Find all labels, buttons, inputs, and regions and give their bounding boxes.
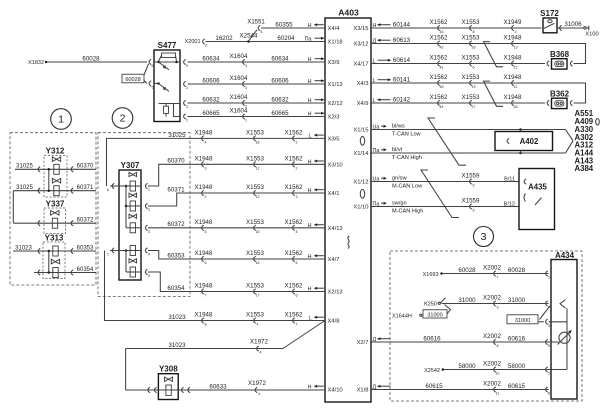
svg-text:4: 4 [148, 253, 150, 257]
svg-text:A402: A402 [520, 137, 539, 146]
svg-text:X1/12: X1/12 [353, 180, 368, 186]
svg-text:X1/10: X1/10 [353, 205, 368, 211]
svg-text:7: 7 [497, 276, 499, 280]
svg-text:12: 12 [514, 66, 518, 70]
svg-text:X1948: X1948 [504, 35, 522, 42]
svg-text:60633: 60633 [209, 383, 227, 390]
svg-text:16202: 16202 [215, 35, 233, 42]
svg-text:2: 2 [296, 166, 298, 170]
svg-text:X4/7: X4/7 [328, 257, 340, 263]
svg-text:X1562: X1562 [285, 219, 303, 226]
svg-text:X4/10: X4/10 [328, 388, 343, 394]
svg-text:60614: 60614 [393, 57, 411, 64]
svg-text:42: 42 [440, 46, 444, 50]
svg-text:9: 9 [497, 306, 499, 310]
svg-text:58000: 58000 [458, 363, 476, 370]
svg-text:17: 17 [472, 105, 476, 109]
svg-text:4: 4 [296, 230, 298, 234]
svg-text:X4/9: X4/9 [357, 101, 369, 107]
svg-text:X1559: X1559 [462, 198, 480, 205]
svg-text:sw/gn: sw/gn [392, 200, 407, 206]
svg-text:9: 9 [186, 64, 188, 68]
svg-text:6: 6 [473, 66, 475, 70]
svg-text:X2002: X2002 [483, 381, 501, 388]
svg-text:60615: 60615 [508, 383, 526, 390]
svg-text:X1948: X1948 [504, 94, 522, 101]
svg-text:19: 19 [472, 85, 476, 89]
svg-text:Y313: Y313 [45, 233, 64, 242]
svg-text:6: 6 [107, 188, 109, 192]
svg-text:5: 5 [473, 184, 475, 188]
svg-text:X2/3: X2/3 [328, 115, 340, 121]
svg-text:3: 3 [205, 166, 207, 170]
svg-text:3: 3 [148, 230, 150, 234]
svg-text:X1562: X1562 [285, 283, 303, 290]
svg-text:X2002: X2002 [483, 265, 501, 272]
svg-text:X1553: X1553 [462, 74, 480, 81]
svg-text:43: 43 [440, 30, 444, 34]
svg-text:X2002: X2002 [483, 361, 501, 368]
svg-text:2: 2 [205, 195, 207, 199]
svg-text:60353: 60353 [167, 252, 185, 259]
svg-text:bl/ws: bl/ws [392, 123, 405, 129]
svg-text:16: 16 [256, 261, 260, 265]
svg-text:60632: 60632 [202, 96, 220, 103]
svg-text:X2542: X2542 [424, 368, 440, 374]
svg-text:16: 16 [514, 105, 518, 109]
svg-text:X1553: X1553 [462, 35, 480, 42]
svg-text:X1948: X1948 [195, 283, 213, 290]
svg-text:4: 4 [258, 392, 260, 396]
svg-text:X2/7: X2/7 [357, 340, 369, 346]
svg-text:X2/13: X2/13 [328, 290, 343, 296]
svg-text:Y312: Y312 [46, 146, 65, 155]
svg-text:X1948: X1948 [504, 74, 522, 81]
svg-text:Y337: Y337 [46, 199, 65, 208]
svg-text:X1551: X1551 [247, 19, 265, 25]
svg-text:31025: 31025 [16, 164, 33, 170]
svg-text:X3/9: X3/9 [328, 60, 340, 66]
svg-text:60141: 60141 [393, 76, 411, 83]
svg-text:X3/12: X3/12 [353, 42, 368, 48]
svg-text:X1559: X1559 [462, 173, 480, 180]
svg-text:5: 5 [148, 274, 150, 278]
svg-text:X2001: X2001 [185, 39, 201, 45]
svg-text:1: 1 [148, 188, 150, 192]
svg-text:60142: 60142 [393, 96, 411, 103]
svg-text:31025: 31025 [16, 185, 33, 191]
svg-text:X1562: X1562 [430, 19, 448, 26]
svg-text:5: 5 [205, 230, 207, 234]
svg-text:31023: 31023 [168, 342, 186, 349]
svg-text:2: 2 [148, 208, 150, 212]
svg-text:5: 5 [152, 86, 154, 90]
svg-text:4: 4 [245, 64, 247, 68]
svg-text:31023: 31023 [15, 245, 32, 251]
svg-text:3: 3 [515, 30, 517, 34]
svg-text:X1693: X1693 [423, 272, 439, 278]
svg-text:X1/15: X1/15 [353, 128, 368, 134]
svg-text:X1562: X1562 [430, 35, 448, 42]
svg-text:X2/12: X2/12 [328, 101, 343, 107]
svg-text:X1/14: X1/14 [353, 151, 369, 157]
svg-text:44: 44 [440, 105, 444, 109]
svg-text:X1832: X1832 [28, 60, 44, 66]
svg-text:31006: 31006 [564, 21, 582, 28]
svg-text:12: 12 [256, 195, 260, 199]
svg-text:X1604: X1604 [230, 53, 248, 60]
svg-text:7: 7 [296, 323, 298, 327]
svg-text:S477: S477 [158, 41, 177, 50]
svg-text:31000: 31000 [427, 312, 442, 318]
svg-text:60371: 60371 [77, 185, 94, 191]
svg-text:6: 6 [296, 294, 298, 298]
svg-text:60028: 60028 [82, 55, 100, 62]
svg-text:60353: 60353 [77, 245, 94, 251]
svg-text:M-CAN High: M-CAN High [392, 208, 423, 214]
svg-text:11: 11 [256, 166, 260, 170]
svg-text:60204: 60204 [277, 35, 295, 42]
svg-text:X4/4: X4/4 [328, 26, 341, 32]
svg-text:T-CAN Low: T-CAN Low [392, 131, 422, 137]
svg-text:X2544: X2544 [240, 33, 258, 40]
svg-text:60028: 60028 [508, 267, 526, 274]
svg-text:60634: 60634 [271, 55, 289, 62]
svg-text:60372: 60372 [77, 218, 94, 224]
svg-text:X1948: X1948 [195, 184, 213, 191]
svg-text:A384: A384 [575, 164, 594, 173]
svg-text:1: 1 [245, 119, 247, 123]
svg-text:X2002: X2002 [483, 295, 501, 302]
svg-text:X1553: X1553 [462, 19, 480, 26]
svg-text:31000: 31000 [515, 318, 530, 324]
svg-text:X1562: X1562 [285, 156, 303, 163]
svg-text:8: 8 [497, 344, 499, 348]
svg-text:60370: 60370 [77, 164, 94, 170]
svg-text:60370: 60370 [167, 158, 185, 165]
svg-text:8: 8 [205, 323, 207, 327]
svg-text:60665: 60665 [271, 110, 289, 117]
svg-text:60354: 60354 [167, 285, 185, 292]
svg-text:58000: 58000 [508, 363, 526, 370]
svg-text:K250: K250 [424, 302, 437, 308]
svg-text:2: 2 [120, 113, 126, 125]
svg-text:X1562: X1562 [430, 74, 448, 81]
svg-text:X4/8: X4/8 [328, 319, 340, 325]
svg-text:X1562: X1562 [285, 130, 303, 137]
svg-text:60144: 60144 [393, 21, 411, 28]
svg-text:X1604: X1604 [230, 75, 248, 82]
svg-text:4: 4 [261, 30, 263, 34]
svg-text:6: 6 [152, 64, 154, 68]
svg-text:bl/vt: bl/vt [392, 147, 403, 153]
svg-text:X1948: X1948 [195, 250, 213, 257]
svg-text:Y308: Y308 [159, 365, 178, 374]
svg-text:6: 6 [205, 261, 207, 265]
svg-text:X1/13: X1/13 [328, 82, 343, 88]
svg-text:X100: X100 [585, 32, 599, 38]
svg-text:S172: S172 [540, 9, 559, 18]
svg-text:17: 17 [256, 294, 260, 298]
svg-text:X1948: X1948 [195, 156, 213, 163]
svg-text:60028: 60028 [458, 267, 476, 274]
svg-text:B368: B368 [550, 50, 570, 59]
svg-text:X1/18: X1/18 [328, 40, 343, 46]
svg-text:X1562: X1562 [430, 94, 448, 101]
svg-text:60616: 60616 [423, 335, 441, 342]
svg-text:3: 3 [548, 324, 550, 328]
svg-text:X1562: X1562 [285, 250, 303, 257]
svg-text:60355: 60355 [275, 21, 293, 28]
svg-text:11: 11 [514, 85, 518, 89]
svg-text:18: 18 [256, 140, 260, 144]
svg-text:15: 15 [256, 230, 260, 234]
svg-text:60615: 60615 [425, 383, 443, 390]
svg-text:3: 3 [186, 105, 188, 109]
svg-text:X1949: X1949 [504, 19, 522, 26]
svg-text:X4/3: X4/3 [357, 81, 369, 87]
svg-text:5: 5 [473, 209, 475, 213]
svg-text:7: 7 [205, 294, 207, 298]
svg-text:60606: 60606 [202, 77, 220, 84]
svg-text:8: 8 [473, 30, 475, 34]
svg-text:gn/sw: gn/sw [392, 175, 408, 181]
svg-text:X1553: X1553 [462, 55, 480, 62]
svg-text:1: 1 [296, 140, 298, 144]
svg-text:X1948: X1948 [195, 312, 213, 319]
svg-text:1: 1 [548, 276, 550, 280]
svg-text:X1948: X1948 [195, 130, 213, 137]
svg-text:60632: 60632 [271, 96, 289, 103]
svg-text:X4/13: X4/13 [328, 226, 343, 232]
svg-text:31000: 31000 [458, 297, 476, 304]
svg-text:Y307: Y307 [121, 161, 140, 170]
svg-text:60634: 60634 [202, 55, 220, 62]
svg-text:3: 3 [296, 195, 298, 199]
svg-text:4: 4 [260, 351, 262, 355]
svg-text:60613: 60613 [393, 37, 411, 44]
svg-text:6: 6 [548, 392, 550, 396]
svg-text:60354: 60354 [77, 267, 94, 273]
svg-text:X1/8: X1/8 [357, 388, 369, 394]
svg-text:5: 5 [548, 344, 550, 348]
svg-text:4: 4 [257, 323, 259, 327]
svg-text:X4/17: X4/17 [353, 62, 368, 68]
svg-text:X2002: X2002 [483, 333, 501, 340]
svg-text:3: 3 [481, 231, 487, 243]
svg-text:X1604: X1604 [230, 94, 248, 101]
svg-text:60606: 60606 [271, 77, 289, 84]
svg-text:X1553: X1553 [462, 94, 480, 101]
svg-text:60372: 60372 [167, 221, 185, 228]
svg-text:60665: 60665 [202, 110, 220, 117]
svg-text:M-CAN Low: M-CAN Low [392, 183, 423, 189]
svg-text:5: 5 [296, 261, 298, 265]
svg-text:1: 1 [58, 114, 64, 126]
svg-text:4: 4 [205, 140, 207, 144]
svg-text:X1972: X1972 [250, 339, 268, 346]
svg-text:X3/10: X3/10 [328, 163, 343, 169]
svg-text:B/12: B/12 [504, 201, 515, 207]
svg-text:A403: A403 [338, 8, 359, 18]
svg-text:13: 13 [514, 46, 518, 50]
svg-text:10: 10 [496, 372, 500, 376]
svg-text:2: 2 [186, 86, 188, 90]
svg-text:2: 2 [205, 44, 207, 48]
svg-text:X1562: X1562 [430, 55, 448, 62]
svg-text:3: 3 [245, 86, 247, 90]
svg-text:18: 18 [472, 46, 476, 50]
svg-text:31025: 31025 [168, 132, 186, 139]
svg-text:X1948: X1948 [195, 219, 213, 226]
svg-text:41: 41 [440, 66, 444, 70]
svg-text:2: 2 [548, 372, 550, 376]
svg-text:31023: 31023 [168, 314, 186, 321]
svg-text:1: 1 [186, 119, 188, 123]
svg-text:X1562: X1562 [285, 312, 303, 319]
svg-text:X3/15: X3/15 [353, 26, 368, 32]
svg-text:1: 1 [107, 253, 109, 257]
svg-text:X1644H: X1644H [392, 313, 412, 319]
svg-text:60371: 60371 [167, 186, 185, 193]
svg-text:60616: 60616 [508, 335, 526, 342]
svg-text:B/11: B/11 [504, 176, 515, 182]
svg-text:B362: B362 [550, 90, 570, 99]
svg-text:A435: A435 [528, 182, 547, 191]
svg-text:X1948: X1948 [504, 55, 522, 62]
svg-text:X4/1: X4/1 [328, 191, 340, 197]
svg-text:X3/5: X3/5 [328, 137, 340, 143]
svg-text:X1972: X1972 [248, 380, 266, 387]
svg-text:60028: 60028 [125, 77, 140, 83]
svg-text:31000: 31000 [508, 297, 526, 304]
svg-text:X1562: X1562 [285, 184, 303, 191]
svg-text:45: 45 [440, 85, 444, 89]
svg-text:T-CAN High: T-CAN High [392, 155, 422, 161]
svg-text:11: 11 [496, 392, 500, 396]
svg-text:X1604: X1604 [230, 108, 248, 115]
